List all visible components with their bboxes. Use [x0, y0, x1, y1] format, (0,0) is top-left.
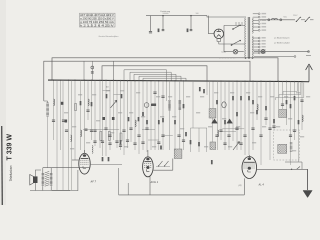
tuning arrow 2	[227, 119, 233, 123]
field coil L10	[46, 102, 49, 104]
bandfilter coil	[290, 142, 293, 144]
svg-text:Netz: Netz	[284, 16, 288, 19]
long vertical x113	[113, 61, 115, 80]
volume pot arrow	[233, 142, 240, 151]
wire anode to tube	[208, 33, 214, 35]
cap C31	[162, 30, 165, 31]
svg-text:2x5000: 2x5000	[163, 13, 169, 15]
rectifier pin 2	[220, 38, 222, 41]
speaker bottom wire	[34, 183, 36, 191]
OT top wires	[43, 168, 51, 174]
terminal3	[294, 56, 296, 58]
tube V1 AF7	[79, 153, 90, 174]
V3 inner dot	[248, 167, 251, 170]
link y128 right	[222, 128, 244, 130]
bias box left wire	[118, 168, 120, 195]
link wire b	[114, 94, 122, 96]
link y131 right	[222, 131, 236, 133]
switch link wire	[301, 19, 305, 21]
switch wire	[156, 166, 170, 168]
earth arrow head	[303, 191, 312, 198]
field coil junction	[47, 101, 49, 103]
dashed chassis line	[219, 57, 236, 59]
mains cord end	[310, 19, 314, 21]
dark cap Ca	[102, 117, 105, 120]
transformer secondary winding lower	[251, 36, 254, 58]
component field	[52, 87, 304, 164]
branch x92 wire	[91, 61, 93, 80]
svg-text:ACH 1: ACH 1	[150, 180, 159, 184]
mains wire step	[207, 16, 246, 17]
speaker top wire	[35, 170, 41, 176]
open resistor Ra	[100, 132, 102, 141]
open resistor Rc	[120, 133, 122, 141]
svg-text:(W): (W)	[239, 185, 242, 187]
switch diag 2	[165, 161, 169, 166]
rectifier anode plates	[217, 29, 221, 31]
electrolytic C12	[91, 66, 94, 69]
dark cap Cb	[112, 117, 115, 120]
HT rail A	[52, 58, 278, 82]
sub drop 3	[206, 128, 208, 152]
dial wire terminal	[308, 51, 310, 53]
svg-text:k 2 1,5 2 6 4 25 V: k 2 1,5 2 6 4 25 V	[80, 24, 114, 27]
resistor R20	[158, 29, 160, 33]
trimmer oval	[222, 102, 226, 108]
dashed bandfilter box	[274, 130, 300, 160]
bus junction dots	[53, 79, 303, 82]
nested corner 1	[283, 83, 298, 94]
bias box inner wire	[127, 183, 129, 195]
scan edge line left	[1, 126, 4, 205]
transformer bottom terminals	[245, 57, 247, 59]
oscillator coil L9	[179, 99, 182, 101]
link y129 mid	[142, 129, 155, 131]
sub drop 2	[198, 128, 200, 152]
AVC line 1	[124, 70, 167, 81]
earth arrow	[307, 169, 309, 190]
rectifier tube V4 AZ1	[214, 29, 224, 39]
wire drop right	[190, 16, 192, 29]
coil above V1	[92, 145, 93, 153]
chain terminal 2	[280, 19, 282, 21]
rect pins bus	[217, 42, 224, 45]
left page edge shading	[0, 0, 6, 205]
link wire a	[103, 90, 111, 92]
link y135 if	[163, 135, 173, 137]
svg-text:Geräte-Stromlaufplan: Geräte-Stromlaufplan	[99, 35, 120, 38]
output transformer primary	[42, 172, 45, 174]
V1 grid return	[52, 170, 78, 191]
svg-text:an Skalenlampen: an Skalenlampen	[274, 38, 290, 40]
transformer core	[247, 17, 249, 58]
interference cap C30	[149, 32, 152, 33]
svg-text:an Wellenschalter: an Wellenschalter	[274, 42, 290, 45]
pot arrow	[111, 100, 117, 108]
mains top wire	[146, 15, 207, 17]
V2 side wire	[153, 169, 173, 171]
wire drop left	[150, 16, 152, 31]
cap small e	[85, 129, 88, 130]
chain inductor	[272, 18, 278, 20]
long return line	[119, 194, 245, 196]
open resistor Rd	[75, 104, 77, 111]
dark cap Cd	[65, 120, 68, 123]
IF area continuation wires	[169, 111, 171, 151]
transformer HT taps	[253, 13, 266, 31]
AVC line 5	[143, 78, 186, 81]
output transformer core	[45, 171, 49, 173]
dial lamp wire	[254, 51, 309, 53]
nested corner 3	[276, 83, 304, 100]
transformer secondary winding upper	[251, 18, 254, 33]
selector frame	[224, 25, 245, 44]
IF transformer 1 winding A	[209, 109, 216, 119]
AVC line 4	[139, 76, 181, 81]
vertical wire field	[54, 80, 303, 190]
resistor near V2	[160, 146, 162, 150]
V3 switch tick	[297, 167, 301, 170]
cap C32	[190, 30, 193, 31]
antenna wire	[302, 81, 309, 83]
tube V3 AL4	[242, 157, 257, 179]
tuning arrow 1	[212, 119, 218, 123]
svg-text:T 339 W: T 339 W	[7, 134, 14, 161]
trimmer circle	[144, 103, 149, 108]
V1 anode wire	[84, 150, 86, 153]
V3 anode wire	[248, 155, 250, 158]
node mains junction 2	[190, 15, 192, 17]
sub drop 1	[190, 128, 192, 152]
main HT bus	[48, 80, 302, 82]
mains chain wire	[260, 19, 295, 21]
chain terminal 1	[268, 19, 270, 21]
dial lamp wire 2	[254, 56, 294, 58]
screen rail C	[102, 66, 207, 81]
open resistor Rb	[108, 132, 110, 141]
V3 side wire	[257, 168, 308, 170]
OT bottom wires	[43, 186, 51, 190]
selector contact dots 1	[232, 28, 234, 30]
selector switch arm 1	[233, 25, 240, 29]
svg-text:AF 7: AF 7	[90, 180, 97, 184]
node mains junction 1	[162, 15, 164, 17]
output transformer secondary	[50, 172, 53, 174]
link y129 left	[83, 129, 119, 131]
tube V2 ACH1	[143, 157, 154, 177]
cap C12 plates	[91, 72, 94, 73]
dark cap Cc	[61, 102, 64, 105]
HT rail B	[44, 61, 250, 101]
rectifier pin 1	[216, 38, 218, 41]
field coil wire bottom	[47, 116, 49, 168]
resistor R21	[187, 29, 189, 33]
speaker cone	[30, 175, 34, 186]
sub resistor 2	[198, 142, 200, 146]
bandfilter bottom B	[278, 144, 287, 153]
AVC line 3	[134, 74, 176, 81]
AVC line 2	[130, 72, 171, 81]
link y128 sub	[191, 127, 208, 129]
selector tap wires	[236, 22, 242, 25]
svg-text:100: 100	[196, 13, 199, 15]
V3 side junction	[291, 169, 292, 170]
V2 cathode drop	[149, 177, 151, 195]
mains switch 2	[305, 17, 309, 21]
horizontal resistor R5	[151, 104, 156, 107]
V1 plate side wire	[90, 163, 122, 165]
sub resistor 1	[190, 140, 192, 144]
oscillator coil L8	[168, 100, 171, 102]
V3 bottom drop	[243, 178, 245, 195]
mains switch 1	[296, 17, 300, 21]
rail B drop x84	[83, 61, 85, 80]
rectifier filament	[217, 35, 221, 37]
selector contact dots 2	[231, 44, 233, 46]
bandfilter top A	[279, 110, 287, 118]
wire lamp drop	[223, 44, 225, 52]
ground bus left	[30, 190, 70, 192]
right loop	[285, 162, 302, 169]
svg-text:AF7 ACH1 AF7 AL4 AZ1 V: AF7 ACH1 AF7 AL4 AZ1 V	[80, 13, 114, 17]
wire to rectifier anode	[207, 16, 209, 34]
svg-text:AL 4: AL 4	[258, 183, 265, 187]
anode feed line	[43, 167, 90, 169]
lamp wire left	[224, 51, 233, 53]
pilot lamp	[233, 49, 238, 54]
switch diag 1	[159, 161, 163, 166]
speaker magnet	[33, 176, 37, 183]
antenna arrow	[306, 64, 313, 82]
V2 inner dot	[146, 166, 149, 169]
transformer LT taps	[253, 37, 266, 54]
transformer primary winding	[244, 18, 247, 57]
rail B to field coil	[44, 101, 48, 103]
wire drop mid	[162, 16, 164, 29]
svg-text:Telefunken: Telefunken	[9, 165, 13, 181]
dial lamp	[261, 50, 265, 54]
lamp wire right	[238, 51, 244, 53]
V2 side riser	[172, 159, 174, 171]
IF transformer 1 winding B	[210, 142, 216, 150]
V2 anode wire	[147, 150, 149, 157]
value labels field	[64, 90, 310, 151]
nested corner 2	[279, 83, 301, 97]
tube data table	[80, 13, 116, 27]
mid hatched coil	[174, 149, 182, 159]
V1 grid wire	[72, 159, 79, 161]
link y140 mid	[148, 139, 159, 141]
selector switch arm 2	[232, 41, 241, 46]
